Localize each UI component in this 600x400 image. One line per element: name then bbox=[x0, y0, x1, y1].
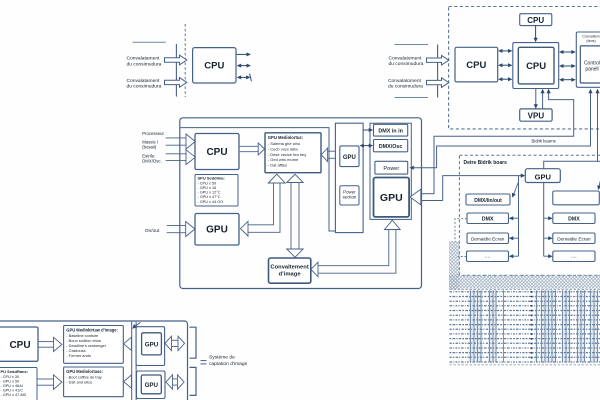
container bottom-left frame bbox=[0, 321, 188, 400]
arrow bus to Demaidie right bbox=[544, 236, 553, 240]
arrow bus to DMX/lin/out diagonal bbox=[512, 182, 519, 198]
svg-text:- Cecb vocs latta: - Cecb vocs latta bbox=[268, 146, 299, 151]
svg-text:- Dat affles: - Dat affles bbox=[268, 163, 287, 168]
wire dashed boundary left bbox=[184, 24, 186, 97]
arrow U1 output 3 bidirectional with tick bbox=[237, 74, 252, 82]
svg-text:- CPU x 30: - CPU x 30 bbox=[1, 375, 20, 379]
arrow open double G5 to bracket bbox=[165, 336, 185, 350]
block GPU G6 inner bbox=[141, 375, 161, 394]
svg-text:(teos): (teos) bbox=[586, 39, 595, 43]
wire tick top right pair bbox=[395, 44, 429, 46]
block Power section in tall box bbox=[340, 186, 359, 205]
arrow bus to dots right bbox=[544, 254, 553, 258]
block DMX in in bbox=[374, 124, 408, 136]
junction table top dashed boundary bbox=[450, 288, 600, 290]
block Control panell inner bbox=[580, 46, 600, 83]
arrow open input 1 into U6 bbox=[166, 134, 196, 149]
svg-text:Convalatament: Convalatament bbox=[127, 56, 161, 62]
wire inner frame1 ledge bbox=[180, 128, 335, 231]
svg-text:Power: Power bbox=[383, 166, 399, 172]
block PU SeddRans list bbox=[0, 368, 37, 400]
label Convalatoment du consimudura 2 bbox=[388, 78, 423, 90]
label Estrile DMX/Osc bbox=[142, 153, 162, 163]
svg-text:section: section bbox=[342, 195, 356, 200]
svg-text:captation d’image: captation d’image bbox=[209, 361, 248, 367]
block CPU U6 bbox=[195, 134, 239, 170]
block GPU Mediokirtaw d'image list bbox=[64, 326, 124, 364]
arrow block input 1 into U1 bbox=[165, 55, 187, 65]
wire VPU to U4 arrow up bbox=[541, 89, 545, 109]
svg-text:- GPU x 12°C: - GPU x 12°C bbox=[198, 191, 221, 195]
svg-text:GPU: GPU bbox=[535, 172, 551, 181]
block DMX left bbox=[467, 213, 509, 224]
svg-text:panell: panell bbox=[585, 67, 598, 73]
svg-text:DMX/lin/out: DMX/lin/out bbox=[474, 198, 502, 204]
svg-text:Convalatoment: Convalatoment bbox=[389, 55, 423, 61]
arrow bus to DMX right bbox=[544, 216, 553, 220]
arrow open double G6 to bracket bbox=[166, 375, 184, 389]
junction table bottom dashed boundary bbox=[450, 364, 600, 366]
arrow U1 output 2 bidirectional bbox=[237, 64, 251, 68]
container dashed box top-right bbox=[449, 7, 600, 129]
svg-text:CPU: CPU bbox=[9, 340, 30, 351]
wire C branch diagonal into box1 bbox=[597, 161, 600, 190]
svg-text:- GPU x 16: - GPU x 16 bbox=[198, 186, 217, 190]
arrow tall box to DMX in in bbox=[364, 128, 374, 132]
label Convalatament du consimudura 1 bbox=[127, 56, 162, 68]
wire E to Detre GPU bbox=[443, 174, 526, 201]
hatch band horizontal bbox=[449, 275, 600, 289]
svg-text:- CPU x 50: - CPU x 50 bbox=[198, 181, 217, 185]
svg-text:On/out: On/out bbox=[145, 228, 160, 234]
junction table column lines bbox=[471, 290, 598, 362]
block GPU G5 inner bbox=[142, 333, 162, 355]
svg-text:VPU: VPU bbox=[528, 112, 545, 121]
arrow open U7 to Mediokirtaw bbox=[39, 337, 62, 351]
svg-text:CPU: CPU bbox=[526, 61, 546, 72]
svg-text:CPU: CPU bbox=[204, 61, 224, 72]
block CPU U4 middle outer bbox=[513, 43, 559, 89]
block box1 right empty bbox=[553, 191, 600, 205]
bracket row2 bbox=[190, 367, 197, 395]
svg-text:Demaidie Ecran: Demaidie Ecran bbox=[557, 236, 591, 241]
label Systeme de captation d'image bbox=[209, 355, 248, 368]
block DMX/lin/out bbox=[466, 194, 510, 205]
label Convalatament du consimudura 2 bbox=[127, 78, 162, 90]
svg-text:Système de: Système de bbox=[209, 355, 235, 361]
svg-text:Detre Bidrik boars: Detre Bidrik boars bbox=[464, 160, 508, 166]
arrow open input 2 into U6 bbox=[166, 150, 196, 165]
block VPU U5 bbox=[520, 109, 552, 121]
block Convaltement d'image bbox=[269, 258, 311, 283]
block Demaidie Ecran left bbox=[467, 233, 509, 244]
wire left column bus bbox=[518, 176, 520, 257]
svg-text:GPU Mediolortus:: GPU Mediolortus: bbox=[268, 135, 303, 140]
svg-text:CPU: CPU bbox=[527, 16, 544, 25]
container middle outer frame bbox=[180, 118, 422, 289]
arrow open tall box to Mediolortus bbox=[321, 148, 335, 162]
wire bracket dashes bbox=[201, 361, 207, 364]
block DMX/Osc bbox=[374, 140, 408, 152]
svg-text:Convaltem: Convaltem bbox=[582, 35, 599, 39]
arrow U3-U4 bidirectional 3 bbox=[498, 77, 513, 81]
svg-text:- GPU x 41/C: - GPU x 41/C bbox=[1, 389, 24, 393]
wire tick top-left bbox=[133, 41, 166, 43]
svg-text:- Ged whs mume: - Ged whs mume bbox=[268, 157, 299, 162]
arrow U3-U4 bidirectional 2 bbox=[498, 63, 513, 67]
junction table dark dot column bbox=[531, 291, 533, 362]
block GPU G1 in tall box bbox=[340, 146, 359, 167]
block GPU G5 outer row1 bbox=[136, 327, 165, 366]
arrow open SeddRans to Mediolortass bbox=[38, 375, 62, 390]
svg-text:Bidrik beams: Bidrik beams bbox=[532, 139, 556, 144]
svg-text:DMX in in: DMX in in bbox=[378, 128, 403, 134]
svg-text:GPU: GPU bbox=[145, 382, 159, 389]
wire dashed DMX left stub bbox=[455, 219, 467, 242]
junction table column shading bbox=[469, 291, 599, 363]
wire vertical bus right pair bbox=[437, 45, 439, 98]
block CPU U1 top-left bbox=[193, 48, 236, 83]
svg-text:- GPU x 46AI: - GPU x 46AI bbox=[1, 384, 23, 388]
block CPU U7 bottom-left bbox=[0, 327, 38, 361]
block DMX right bbox=[553, 213, 595, 224]
wire dashed dots left stub bbox=[458, 256, 467, 258]
arrow block input 1 into dashed box bbox=[427, 55, 449, 65]
wire bent open arrow into Convaltement and up into G2 bbox=[311, 220, 400, 277]
block GPU Mediolortass list bbox=[64, 367, 124, 397]
svg-text:- GPU x 50: - GPU x 50 bbox=[1, 379, 20, 383]
svg-text:du consimudura: du consimudura bbox=[389, 61, 424, 67]
block CPU U3 left bbox=[455, 47, 498, 82]
svg-text:du consimudura: du consimudura bbox=[127, 61, 162, 67]
svg-text:Convalatoment: Convalatoment bbox=[388, 78, 422, 84]
arrow open channel into Mediokirtaw bbox=[124, 337, 132, 350]
svg-text:- GPU x 47°C: - GPU x 47°C bbox=[198, 195, 221, 199]
wire vertical open arrow Mediolortus to Convaltement both heads bbox=[287, 174, 303, 257]
block GPU Mediolortus list bbox=[265, 133, 321, 173]
bracket row1 bbox=[190, 327, 197, 358]
block GPU G6 outer row2 bbox=[137, 371, 166, 399]
wire B to Power with arrow up into panel bbox=[409, 89, 592, 170]
wire vertical bus left of CPU U1 bbox=[175, 44, 177, 97]
block GPU G4 detre bbox=[525, 169, 560, 183]
svg-text:DMX/Osc.: DMX/Osc. bbox=[142, 158, 162, 163]
svg-text:GPU: GPU bbox=[206, 225, 228, 236]
arrow block input 2 into U1 bbox=[165, 78, 187, 88]
block dots left bbox=[467, 251, 509, 262]
svg-text:d’image: d’image bbox=[279, 272, 302, 278]
svg-text:....: .... bbox=[485, 254, 491, 260]
wire bent open arrow G3 to Mediolortus bbox=[241, 174, 286, 236]
arrow bus to dots left bbox=[509, 254, 519, 258]
wire U2 to U4 with arrow down bbox=[534, 26, 538, 43]
wire A feedback into U4 bbox=[434, 89, 574, 194]
svg-text:du consimudura: du consimudura bbox=[127, 84, 162, 90]
svg-text:Processeur: Processeur bbox=[142, 131, 164, 136]
arrow open U6 to Mediolortus bbox=[240, 143, 265, 155]
block GPU G2 big bbox=[374, 178, 410, 217]
svg-text:GPU Mediolortass:: GPU Mediolortass: bbox=[66, 369, 103, 374]
junction table rows of fine print bbox=[450, 292, 600, 362]
svg-text:- Dsit and etics: - Dsit and etics bbox=[66, 380, 92, 385]
svg-text:Demaidie Ecran: Demaidie Ecran bbox=[471, 236, 505, 241]
arrow bus to DMX left bbox=[509, 216, 519, 220]
svg-text:(bosaii): (bosaii) bbox=[142, 144, 157, 149]
arrow bus to Demaidie left bbox=[509, 236, 519, 240]
arrow open channel into Mediolortass bbox=[124, 375, 132, 388]
block Power bbox=[375, 161, 408, 174]
wire right column bus bbox=[543, 183, 545, 257]
block CPU U2 small top bbox=[520, 14, 552, 26]
svg-text:GPU: GPU bbox=[343, 155, 356, 161]
container Detre dashed box bbox=[459, 155, 600, 275]
svg-text:- GPU x 47.8ID: - GPU x 47.8ID bbox=[1, 393, 27, 397]
wire tick bottom right pair bbox=[395, 97, 429, 99]
arrow GPU G1 to DMX/Osc bidirectional bbox=[359, 144, 373, 148]
svg-text:DMX: DMX bbox=[568, 217, 580, 223]
svg-text:- GPU x 44 GO: - GPU x 44 GO bbox=[198, 200, 224, 204]
arrow diagonal small at channel top bbox=[132, 322, 140, 328]
label Convalatoment du consimudura 1 bbox=[389, 55, 424, 67]
arrow U4-panel bidirectional 2 bbox=[559, 64, 576, 68]
svg-text:GPU Mediokirtaw d’image:: GPU Mediokirtaw d’image: bbox=[66, 327, 118, 332]
wire C GPU top to panel arrow up bbox=[544, 89, 600, 169]
block Demaidie Ecran right bbox=[553, 233, 595, 244]
arrow open On/out into G3 bbox=[167, 222, 195, 237]
hatch band vertical left bbox=[449, 241, 460, 290]
block Convaltem teos panel outer bbox=[576, 32, 600, 87]
block SPU Seddlina list bbox=[195, 175, 238, 207]
label Massis I bosaii bbox=[142, 140, 158, 150]
svg-text:....: .... bbox=[571, 254, 577, 260]
svg-text:CPU: CPU bbox=[206, 147, 227, 158]
svg-text:DMX/Osc: DMX/Osc bbox=[379, 144, 403, 150]
svg-text:SPU Seddlina:: SPU Seddlina: bbox=[198, 176, 225, 181]
block tall section box bbox=[335, 123, 363, 232]
arrow U3-U4 bidirectional 1 bbox=[498, 49, 513, 53]
wire channel vertical pair bbox=[132, 322, 136, 400]
arrow U1 output 1 bbox=[237, 52, 252, 56]
svg-text:Convaltement: Convaltement bbox=[270, 265, 308, 271]
svg-text:- Former aruts: - Former aruts bbox=[66, 353, 91, 358]
block dots right bbox=[553, 251, 595, 262]
arrow U4-panel bidirectional 1 bbox=[559, 50, 576, 54]
block CPU U4 inner bbox=[518, 47, 554, 84]
svg-text:GPU: GPU bbox=[380, 192, 403, 204]
svg-text:Convalatament: Convalatament bbox=[127, 78, 161, 84]
svg-text:- Salema ghe who: - Salema ghe who bbox=[268, 141, 301, 146]
svg-text:du consimudura: du consimudura bbox=[388, 84, 423, 90]
svg-text:CPU: CPU bbox=[466, 60, 486, 71]
svg-text:GPU: GPU bbox=[145, 342, 159, 349]
arrow block input 2 into dashed box bbox=[427, 78, 449, 88]
arrow U4-panel bidirectional 3 bbox=[559, 78, 576, 82]
wire U4 to VPU arrow down bbox=[534, 89, 538, 109]
svg-text:PU SeddRans:: PU SeddRans: bbox=[1, 369, 29, 374]
wire open arrow into G2 right with double shaft bbox=[410, 189, 443, 205]
container frame2 around DMX group bbox=[370, 123, 411, 219]
svg-text:DMX: DMX bbox=[482, 217, 494, 223]
svg-text:- Dese vecice tea bey: - Dese vecice tea bey bbox=[268, 152, 306, 157]
block GPU G3 bbox=[195, 214, 239, 246]
